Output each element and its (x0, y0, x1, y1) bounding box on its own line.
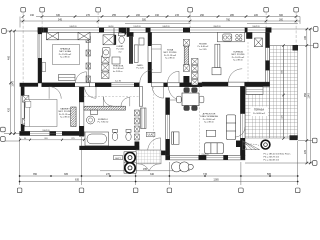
kitchen sink (223, 34, 232, 41)
corridor to entry door arc (152, 87, 163, 98)
svg-text:P= 4.20: P= 4.20 (136, 68, 144, 70)
terrace tiled floor lower (245, 87, 270, 139)
right dim ticks (306, 28, 312, 165)
svg-text:1340: 1340 (308, 93, 311, 99)
entry label box (146, 132, 155, 136)
bath1 label (116, 45, 124, 53)
svg-text:A PROSTOR: A PROSTOR (203, 113, 216, 116)
bottom dim lines (20, 137, 298, 185)
entry bottom wall (139, 151, 169, 155)
svg-text:DNEV. BORAVKA: DNEV. BORAVKA (200, 115, 218, 118)
bath2 right wall X blocks (135, 110, 140, 140)
svg-text:240/120: 240/120 (69, 26, 77, 28)
svg-text:Pn = 185.20 m2 Neto Povrs: Pn = 185.20 m2 Neto Povrs (264, 153, 292, 156)
svg-text:565: 565 (267, 173, 272, 176)
living room right wall (240, 86, 245, 156)
svg-text:270: 270 (106, 173, 111, 176)
entry door arc (148, 138, 161, 151)
svg-text:215: 215 (175, 14, 180, 17)
svg-text:635: 635 (75, 179, 80, 182)
bath2 top wall hatched (84, 106, 126, 110)
washer box top (91, 110, 98, 114)
bottom grid bubbles (17, 188, 300, 193)
svg-text:Pb = 205.75 m2: Pb = 205.75 m2 (264, 157, 280, 159)
top grid dashed verticals (23, 12, 296, 86)
dining chairs dark (184, 88, 197, 111)
svg-text:255: 255 (112, 14, 117, 17)
svg-text:h= 2.85 m: h= 2.85 m (233, 60, 243, 62)
entry steps hatch outside (136, 150, 161, 164)
window dim texts small (42, 26, 260, 156)
kitchen stove (236, 34, 242, 40)
svg-text:P= 6.40 m2: P= 6.40 m2 (198, 46, 210, 48)
tv cabinet (172, 132, 179, 144)
svg-text:h= 2.85 m: h= 2.85 m (60, 117, 70, 119)
terrace interior dim line (283, 46, 285, 139)
svg-text:KUPAT.: KUPAT. (117, 45, 124, 48)
soba bed (152, 45, 162, 73)
bottom dim numbers (33, 168, 272, 182)
svg-text:P= 11.95 m2: P= 11.95 m2 (164, 55, 177, 57)
svg-text:P= 34.80 m2: P= 34.80 m2 (253, 113, 266, 115)
bathtub (85, 132, 109, 146)
top dim lines (20, 17, 300, 28)
svg-text:SEPT: SEPT (115, 158, 121, 160)
svg-text:1040: 1040 (12, 81, 15, 87)
soba door arc (168, 71, 180, 83)
svg-text:180/120: 180/120 (252, 26, 260, 28)
kabinet label (58, 108, 72, 119)
svg-text:GARD.: GARD. (137, 64, 144, 67)
svg-text:SOBA: SOBA (167, 49, 174, 52)
svg-text:330: 330 (56, 14, 61, 17)
left exterior wall of bedroom (38, 28, 42, 83)
step wall bedroom to kabinet (20, 83, 38, 87)
svg-text:NET. POVRS: NET. POVRS (163, 52, 177, 54)
top dim numbers (30, 14, 284, 21)
terrace label TERASA (251, 107, 269, 117)
svg-text:KUHINJA: KUHINJA (233, 51, 243, 54)
left dim ticks (9, 30, 16, 135)
living room label (200, 113, 218, 124)
svg-text:PREDSOB.: PREDSOB. (113, 66, 124, 68)
hall door arcs (169, 87, 182, 100)
dim row below kabinet wall (20, 139, 84, 141)
garderoba door arc (140, 70, 153, 83)
corridor dashed line (84, 96, 139, 98)
living room left wall (166, 98, 170, 156)
svg-text:280/120: 280/120 (213, 26, 221, 28)
pantry cabinet (215, 44, 220, 67)
entry wardrobe (141, 108, 146, 129)
svg-text:h= 2.85 m: h= 2.85 m (113, 71, 123, 73)
svg-text:220: 220 (254, 14, 259, 17)
garderoba / soba wall (148, 32, 152, 82)
svg-text:1285: 1285 (213, 179, 219, 182)
bath1 wall X blocks column (102, 56, 110, 79)
svg-text:190: 190 (155, 14, 160, 17)
dresser bottom bedroom1 (59, 75, 76, 81)
patio table circles (172, 162, 194, 172)
living room bottom wall with windows (166, 155, 245, 160)
exterior winder steps (243, 141, 260, 150)
svg-text:225: 225 (304, 149, 307, 154)
svg-text:h= 2.85 m: h= 2.85 m (60, 57, 70, 59)
svg-text:KUPATILO: KUPATILO (98, 118, 108, 121)
bedroom radiator (42, 63, 46, 72)
bath2 bottom exterior wall (79, 146, 139, 150)
svg-text:155: 155 (143, 168, 148, 171)
sofa vertical (226, 115, 235, 140)
bath2 label (98, 118, 110, 124)
svg-text:P= 11.35 m2: P= 11.35 m2 (59, 114, 72, 116)
kitchen counter top (217, 32, 244, 41)
svg-text:460: 460 (8, 55, 11, 60)
svg-text:340: 340 (150, 173, 155, 176)
terrace tiled floor upper (270, 46, 298, 139)
kabinet left wall X blocks (23, 96, 29, 126)
right grid bubbles (312, 27, 318, 166)
svg-text:180/120: 180/120 (42, 130, 50, 132)
svg-text:200: 200 (136, 14, 141, 17)
sofa horizontal (205, 143, 224, 154)
svg-text:305: 305 (64, 173, 69, 176)
sink bath2 round (87, 116, 95, 124)
svg-text:920: 920 (142, 18, 147, 21)
bed bedroom1 (53, 45, 80, 65)
svg-text:350: 350 (33, 173, 38, 176)
left grid bubbles (1, 29, 7, 142)
svg-text:545: 545 (58, 18, 63, 21)
bedroom bottom wall (42, 83, 90, 87)
kabinet / bath2 wall (79, 87, 84, 137)
svg-text:h= 2.85: h= 2.85 (200, 49, 208, 51)
kitchen label (231, 51, 245, 62)
svg-text:NET. SOBA: NET. SOBA (59, 50, 71, 53)
svg-text:NET. POVRS: NET. POVRS (231, 54, 245, 56)
kitchen corner block (246, 32, 252, 38)
kitchen peninsula (212, 68, 221, 75)
bedroom1 label (59, 48, 72, 59)
svg-text:220/220: 220/220 (201, 154, 209, 156)
svg-text:h=2.85: h=2.85 (115, 81, 122, 83)
chimney black block (236, 141, 242, 148)
bath2 door arc (103, 97, 113, 107)
bedroom1 door arc (76, 72, 87, 83)
kitchen right exterior wall (266, 32, 270, 86)
kitchen bottom wall (202, 82, 270, 86)
entry / corridor left wall (139, 87, 142, 107)
terrace corner column top-right (293, 45, 299, 51)
svg-text:300: 300 (279, 14, 284, 17)
svg-text:P= 9.80 m2: P= 9.80 m2 (113, 68, 125, 70)
corridor door arc from kabinet side (85, 87, 97, 99)
right dim numbers (304, 35, 311, 154)
svg-text:240/120: 240/120 (162, 26, 170, 28)
corridor door arc to bath2 (121, 97, 130, 106)
svg-text:950: 950 (304, 92, 307, 97)
svg-text:P= 10.35 m2: P= 10.35 m2 (232, 57, 245, 59)
svg-text:NET. POVRS: NET. POVRS (58, 111, 72, 113)
soba label (163, 49, 177, 60)
wardrobe dark bar garderoba (129, 37, 133, 64)
svg-text:420: 420 (8, 107, 11, 112)
svg-text:P= 15.95 m2: P= 15.95 m2 (59, 54, 72, 56)
svg-text:280: 280 (230, 14, 235, 17)
svg-text:HODNIK: HODNIK (199, 44, 208, 46)
svg-text:715: 715 (203, 173, 208, 176)
svg-text:SPAVACA: SPAVACA (60, 48, 70, 51)
svg-text:80/60: 80/60 (108, 26, 114, 28)
coffee table (206, 130, 215, 136)
kabinet door arc (49, 87, 61, 99)
toilet bath2 (112, 130, 117, 141)
svg-text:P= 5.60: P= 5.60 (116, 49, 124, 51)
svg-text:165: 165 (304, 35, 307, 40)
corridor bottom wall (90, 83, 140, 87)
svg-text:300: 300 (279, 18, 284, 21)
left dim numbers (8, 55, 15, 112)
kabinet bottom wall with window (20, 131, 85, 135)
cistern circle 2 (125, 163, 135, 173)
label box left of circles (114, 156, 123, 160)
left dim lines (4, 31, 38, 141)
beam X box below top wall bath1 (103, 35, 115, 45)
legend text block (264, 153, 292, 162)
predsoblje label (113, 66, 125, 73)
svg-text:190: 190 (30, 14, 35, 17)
kabinet bed (25, 100, 57, 127)
svg-text:h= 2.85 m: h= 2.85 m (204, 122, 214, 124)
right dim lines (245, 29, 314, 163)
toilet bath1 (118, 33, 124, 43)
svg-text:KABINET: KABINET (60, 108, 70, 111)
top grid bubbles (21, 7, 299, 12)
kabinet left exterior wall (21, 87, 24, 132)
kitchen door arc (228, 69, 242, 83)
dining table (182, 93, 199, 106)
terrace corner block bottom-right (290, 135, 298, 140)
svg-text:120/120: 120/120 (133, 26, 141, 28)
living door arc to terrace (235, 127, 245, 137)
svg-text:ULAZ: ULAZ (148, 134, 154, 137)
entry outside door arcs (138, 164, 161, 171)
hall label (198, 44, 210, 51)
hall bottom wall (152, 83, 202, 87)
wardrobe band top with X ends (47, 32, 91, 39)
cistern circle 1 (125, 152, 135, 162)
svg-text:TERASA: TERASA (254, 109, 264, 112)
svg-text:760: 760 (226, 18, 231, 21)
svg-text:h= 2.85 m: h= 2.85 m (165, 58, 175, 60)
closet boxes (134, 45, 138, 63)
svg-text:Pu = 240.35 m2: Pu = 240.35 m2 (264, 160, 280, 162)
bidet bath2 (126, 130, 131, 141)
washer box bath1 (112, 57, 120, 64)
terrace planter below kitchen (246, 87, 263, 95)
kabinet radiator (71, 107, 76, 127)
top dim ticks (22, 15, 298, 22)
hall X blocks column (192, 59, 199, 86)
sink bath1 (102, 48, 110, 58)
top exterior wall band (38, 28, 271, 33)
fridge X box (255, 38, 263, 47)
soba right wall X blocks (183, 39, 189, 71)
bottom dim dots (19, 175, 299, 182)
boiler circle (261, 140, 270, 149)
svg-text:P= 7.80 m2: P= 7.80 m2 (98, 122, 110, 124)
top wall piers (38, 28, 271, 33)
interior dashed axes (153, 42, 248, 155)
top wall window center-lines (48, 29, 266, 31)
soba right wall hatched (184, 46, 188, 65)
washer enclosure rect (124, 152, 136, 173)
svg-text:290: 290 (200, 14, 205, 17)
wc partition bath1 (113, 28, 115, 45)
bedroom right wall X blocks (86, 37, 90, 83)
svg-text:P= 28.60 m2: P= 28.60 m2 (203, 119, 216, 121)
svg-text:270: 270 (86, 14, 91, 17)
